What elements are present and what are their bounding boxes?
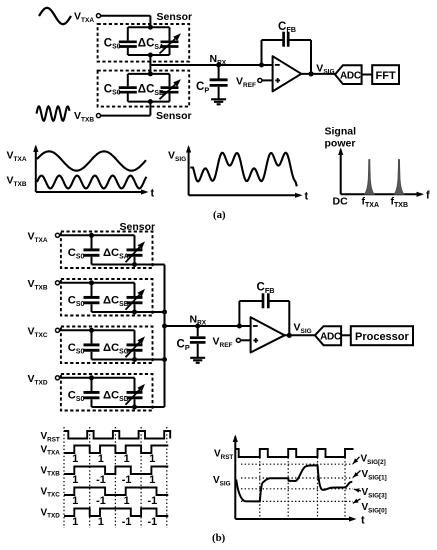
svg-text:1: 1: [124, 453, 130, 465]
svg-text:Sensor: Sensor: [156, 110, 192, 122]
sensor box B dashed (a): [98, 71, 190, 107]
waveform V_TXC timing: [64, 488, 168, 496]
svg-text:1: 1: [72, 495, 78, 507]
svg-text:Signal: Signal: [325, 126, 357, 138]
variable capacitor dC_SA (a): [169, 27, 171, 40]
bottom rail sensor A (a): [128, 54, 170, 56]
svg-text:(b): (b): [212, 532, 226, 544]
terminal V_TXB (a): [96, 114, 100, 118]
terminal V_TXA (a): [96, 14, 100, 18]
svg-text:-1: -1: [122, 516, 132, 528]
capacitor C_S0 sensor A (b): [91, 235, 93, 248]
node bus sensor C (b): [162, 357, 167, 362]
variable capacitor dC_SB (b): [134, 283, 136, 296]
wire V_TXA to sensor A (a): [101, 15, 150, 17]
svg-text:ADC: ADC: [320, 331, 341, 342]
plot4 dashed level lines: [241, 463, 353, 465]
ground below C_P (b): [190, 357, 205, 359]
plot4 axes V_RST V_SIG vs t (b): [234, 437, 236, 520]
Processor block (b): [351, 326, 413, 345]
svg-text:-1: -1: [96, 495, 106, 507]
wire sensor D exit to bus (b): [135, 406, 165, 408]
terminal V_TXC (b): [55, 328, 59, 332]
capacitor C_S0 in sensor A (a): [127, 27, 129, 40]
wire sensor C exit to bus (b): [135, 359, 165, 361]
ground below C_P (a): [211, 98, 226, 100]
svg-text:1: 1: [124, 495, 130, 507]
node top rail sensor D (b): [89, 375, 94, 380]
node bus sensor B (b): [162, 310, 167, 315]
node output junction (b): [287, 333, 292, 338]
waveform V_SIG plot2: [190, 153, 296, 187]
wire sensor A to sensor B (a): [149, 55, 151, 75]
source squiggle symbol for V_TXB: [37, 106, 70, 120]
bottom rail sensor C (b): [92, 359, 135, 361]
node bus N_RX tap (b): [162, 324, 167, 329]
terminal V_TXD (b): [55, 376, 59, 380]
op-amp U2 (b): [251, 317, 285, 352]
bottom rail sensor B (b): [92, 311, 135, 313]
wire V_TXC into sensor (b): [60, 329, 92, 331]
node feedback tap (b): [237, 324, 242, 329]
sensor box C dashed (b): [61, 327, 153, 364]
svg-text:-1: -1: [122, 474, 132, 486]
node top rail sensor B (a): [148, 71, 153, 76]
wire V_TXB into sensor (b): [60, 282, 92, 284]
plot1 axes V_TXA V_TXB vs t: [35, 147, 37, 193]
node bottom rail sensor A (a): [148, 53, 153, 58]
node bottom rail sensor D (b): [132, 405, 137, 410]
bottom rail sensor B (a): [128, 101, 170, 103]
wire N_RX rail (a): [150, 64, 272, 66]
wire N_RX rail (b): [165, 325, 251, 327]
wire V_REF to op-amp plus (a): [262, 79, 273, 81]
wire op-amp output to ADC (b): [285, 334, 315, 336]
wire ADC to FFT (a): [362, 74, 373, 76]
variable capacitor dC_SD (b): [134, 378, 136, 391]
timing dashed gridlines (b): [63, 427, 65, 528]
bottom rail sensor D (b): [92, 406, 135, 408]
sensor box A dashed (a): [98, 24, 190, 62]
svg-text:1: 1: [72, 474, 78, 486]
svg-text:1: 1: [72, 453, 78, 465]
spectral peak f_TXB: [394, 160, 404, 195]
variable capacitor dC_SA (b): [134, 235, 136, 248]
wire ADC to Processor (b): [341, 334, 351, 336]
node feedback tap (a): [259, 63, 264, 68]
wire V_TXA into sensor (b): [60, 234, 92, 236]
capacitor C_FB (a): [282, 32, 285, 47]
source sine symbol for V_TXA: [39, 8, 71, 24]
waveform V_TXB timing: [64, 467, 168, 475]
top rail sensor B (b): [92, 282, 135, 284]
top rail sensor D (b): [92, 377, 135, 379]
node top rail sensor C (b): [89, 328, 94, 333]
svg-text:Processor: Processor: [355, 331, 410, 343]
svg-text:1: 1: [98, 453, 104, 465]
svg-text:t: t: [361, 515, 365, 527]
capacitor C_FB (b): [262, 293, 265, 308]
spectral peak f_TXA: [364, 160, 374, 195]
top rail sensor C (b): [92, 329, 135, 331]
node output junction (a): [308, 71, 313, 76]
svg-text:-1: -1: [147, 495, 157, 507]
svg-text:-1: -1: [96, 474, 106, 486]
capacitor C_S0 sensor D (b): [91, 378, 93, 391]
top rail sensor B (a): [128, 73, 170, 75]
terminal V_REF (b): [236, 338, 240, 342]
svg-text:FFT: FFT: [376, 70, 396, 82]
waveform V_TXB plot1: [37, 176, 147, 189]
bottom rail sensor A (b): [92, 264, 135, 266]
capacitor C_P (b): [197, 326, 199, 336]
terminal V_TXA (b): [55, 233, 59, 237]
svg-text:1: 1: [98, 516, 104, 528]
waveform V_TXA timing: [64, 446, 168, 454]
wire sensor A exit to bus (b): [135, 264, 165, 266]
plot4 dashed vertical gridlines: [259, 458, 261, 520]
wire V_REF to op-amp plus (b): [241, 339, 251, 341]
svg-text:ADC: ADC: [340, 70, 361, 81]
svg-text:t: t: [151, 188, 155, 200]
node C_P tap (b): [195, 324, 200, 329]
capacitor C_S0 sensor C (b): [91, 330, 93, 343]
wire V_TXD into sensor (b): [60, 377, 92, 379]
waveform V_RST plot4: [235, 449, 353, 457]
feedback wire with C_FB (a): [261, 40, 263, 65]
svg-text:-1: -1: [147, 516, 157, 528]
FFT block (a): [372, 65, 399, 84]
svg-text:1: 1: [149, 453, 155, 465]
waveform V_TXD timing: [64, 509, 168, 517]
node C_P tap (a): [216, 63, 221, 68]
wire sensor B exit to bus (b): [135, 311, 165, 313]
ADC block (b): [315, 326, 341, 345]
node bottom rail sensor A (b): [132, 262, 137, 267]
sensor box B dashed (b): [61, 279, 153, 316]
svg-text:f: f: [426, 190, 430, 202]
top rail sensor A (a): [128, 26, 170, 28]
node top rail sensor B (b): [89, 280, 94, 285]
svg-text:power: power: [325, 138, 356, 150]
feedback wire with C_FB (b): [238, 301, 240, 326]
sensor box A dashed (b): [61, 232, 153, 269]
terminal V_TXB (b): [55, 281, 59, 285]
node top rail sensor A (b): [89, 233, 94, 238]
bus wire joining sensors (b): [164, 265, 166, 408]
plot2 axes V_SIG vs t: [188, 147, 190, 195]
variable capacitor dC_SB (a): [169, 74, 171, 86]
capacitor C_P (a): [218, 65, 220, 78]
svg-text:DC: DC: [333, 196, 349, 208]
node top rail sensor A (a): [148, 25, 153, 30]
ADC block (a): [335, 65, 362, 84]
svg-text:1: 1: [72, 516, 78, 528]
svg-text:Sensor: Sensor: [157, 11, 193, 23]
svg-text:t: t: [305, 191, 309, 203]
sensor box D dashed (b): [61, 374, 153, 411]
top rail sensor A (b): [92, 234, 135, 236]
wire op-amp output to ADC (a): [301, 73, 335, 75]
waveform V_TXA plot1: [37, 151, 146, 170]
waveform V_RST timing: [64, 431, 170, 439]
waveform V_SIG settling curve plot4: [236, 465, 352, 501]
wire V_TXB to sensor B (a): [101, 115, 150, 117]
svg-text:Sensor: Sensor: [120, 221, 156, 233]
node bottom rail sensor B (b): [132, 310, 137, 315]
variable capacitor dC_SC (b): [134, 330, 136, 343]
node bottom rail sensor C (b): [132, 357, 137, 362]
capacitor C_S0 in sensor B (a): [127, 74, 129, 86]
svg-text:1: 1: [149, 474, 155, 486]
plot3 axes signal power vs f: [340, 150, 342, 195]
capacitor C_S0 sensor B (b): [91, 283, 93, 296]
terminal V_REF (a): [258, 78, 262, 82]
op-amp U1 (a): [273, 56, 302, 91]
svg-text:(a): (a): [213, 209, 226, 221]
node bottom rail sensor B (a): [148, 99, 153, 104]
